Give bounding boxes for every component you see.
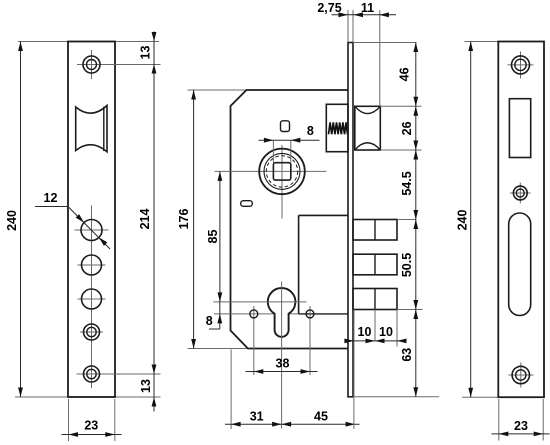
svg-text:54.5: 54.5 xyxy=(400,171,414,195)
svg-text:12: 12 xyxy=(44,191,58,205)
svg-text:2,75: 2,75 xyxy=(317,1,341,15)
follower square spindle hole xyxy=(273,163,290,180)
follower outer circle xyxy=(259,149,305,195)
svg-text:240: 240 xyxy=(5,210,19,231)
dimension 2,75 / 11 xyxy=(332,14,397,16)
middle screw hole xyxy=(513,186,527,200)
extension body left bottom xyxy=(230,350,232,430)
lock body outline xyxy=(231,90,349,349)
dimension 23 bottom left xyxy=(68,399,70,441)
dimension 8 square xyxy=(272,140,274,163)
svg-text:13: 13 xyxy=(139,46,153,60)
top screw hole xyxy=(512,56,530,74)
extension bolt verticals xyxy=(374,220,376,241)
faceplate strip xyxy=(348,43,353,397)
euro cylinder keyhole xyxy=(268,288,296,337)
fixing hole left xyxy=(253,306,255,375)
dimension chain 46/26/54.5/50.5/63 xyxy=(415,43,417,397)
extension bottom edge xyxy=(462,396,544,398)
dimension 38 xyxy=(246,371,318,373)
extension lines right chain xyxy=(353,42,417,44)
left faceplate outline xyxy=(68,42,115,398)
inner bolt case top edge xyxy=(299,214,348,216)
hole 3 xyxy=(82,289,102,309)
dimension 8 cylinder offset xyxy=(219,302,221,329)
top screw hole crosshair xyxy=(77,64,161,66)
dimension 23 bottom right xyxy=(498,399,500,441)
vertical centerline through holes xyxy=(91,206,93,389)
deadbolt bar 3 xyxy=(353,289,397,310)
svg-text:38: 38 xyxy=(276,357,290,371)
spring box xyxy=(326,104,348,151)
dimension 240 right xyxy=(470,42,472,398)
dimension chain 13/214/13 xyxy=(153,32,155,412)
hole 4 screw xyxy=(84,324,100,340)
svg-text:11: 11 xyxy=(361,1,374,15)
svg-text:13: 13 xyxy=(139,379,153,393)
deadbolt slot oval xyxy=(509,213,531,316)
svg-text:214: 214 xyxy=(138,209,152,230)
extension top edge xyxy=(188,89,349,91)
svg-text:10: 10 xyxy=(379,325,393,339)
dimension 240 left xyxy=(20,42,22,398)
dimension 176 xyxy=(193,90,195,349)
hole 5 crosshair xyxy=(77,373,161,375)
latch cutout inner bevel line xyxy=(103,107,105,151)
faceplate extension above xyxy=(347,10,349,43)
latch bolt middle view xyxy=(355,106,381,150)
latch cutout rectangle xyxy=(509,99,530,158)
fixing hole right xyxy=(309,306,311,375)
hole 1 crosshair xyxy=(75,229,109,231)
svg-text:23: 23 xyxy=(84,419,98,433)
latch cutout (spool shape) xyxy=(76,106,107,152)
svg-text:176: 176 xyxy=(177,209,191,230)
svg-text:45: 45 xyxy=(314,409,328,423)
bottom screw hole crosshair xyxy=(509,374,534,376)
svg-text:85: 85 xyxy=(206,230,220,244)
dimension 31 / 45 xyxy=(225,423,360,425)
extension line top edge xyxy=(18,41,159,43)
top screw hole crosshair xyxy=(508,64,534,66)
hole 4 crosshair xyxy=(80,331,103,333)
extension top edge xyxy=(465,41,499,43)
top screw hole xyxy=(83,56,100,73)
follower centerlines xyxy=(281,145,283,219)
svg-text:26: 26 xyxy=(400,121,414,135)
bottom screw hole xyxy=(512,366,529,383)
small slot above follower xyxy=(281,121,290,132)
svg-text:240: 240 xyxy=(456,210,470,231)
strike plate outline xyxy=(498,42,544,398)
middle screw hole crosshair xyxy=(510,192,531,194)
hole 5 screw xyxy=(84,366,100,382)
svg-text:46: 46 xyxy=(398,67,412,81)
dimension 85 xyxy=(219,171,221,302)
cylinder vertical centerline xyxy=(281,282,283,429)
dimension 10 10 xyxy=(345,340,407,342)
svg-text:10: 10 xyxy=(358,325,372,339)
small slot left of follower xyxy=(241,201,253,207)
svg-text:31: 31 xyxy=(250,409,264,423)
follower dashed circle xyxy=(266,156,297,187)
inner bolt case left edge xyxy=(298,215,300,314)
extension line bottom edge xyxy=(15,396,161,398)
deadbolt bar 2 xyxy=(353,254,397,275)
spring zigzag xyxy=(329,122,348,134)
hole 2 crosshair xyxy=(78,264,106,266)
hole 2 xyxy=(82,255,102,275)
extension bottom edge xyxy=(188,348,349,350)
svg-text:8: 8 xyxy=(206,314,213,328)
hole 3 crosshair xyxy=(78,298,106,300)
svg-text:8: 8 xyxy=(307,124,314,138)
svg-text:50.5: 50.5 xyxy=(400,253,414,277)
hole 1 xyxy=(81,220,102,241)
follower inner ring xyxy=(264,153,300,189)
svg-text:23: 23 xyxy=(514,419,528,433)
dimension 12 leader xyxy=(35,206,68,208)
cylinder horizontal centerline xyxy=(213,301,306,303)
fixing holes centerline / case bottom xyxy=(214,313,299,315)
extension latch tip xyxy=(379,10,381,106)
svg-text:63: 63 xyxy=(400,348,414,362)
deadbolt bar 1 xyxy=(353,220,397,241)
